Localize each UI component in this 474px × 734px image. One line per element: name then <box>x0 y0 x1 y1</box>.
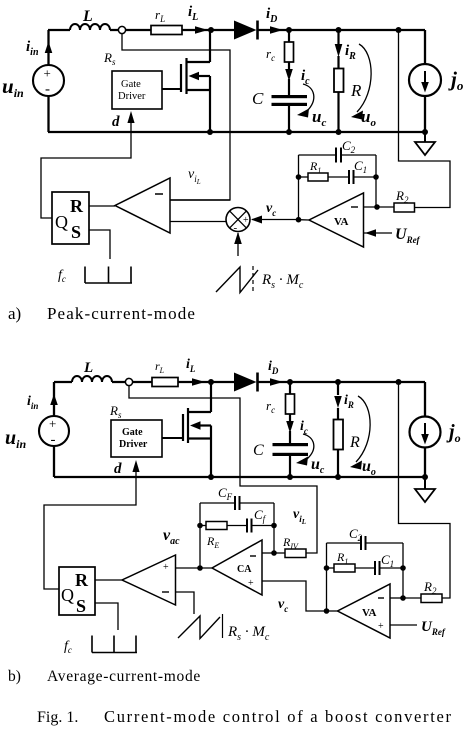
wire VA output v_c node a <box>299 219 310 221</box>
arc u_o a <box>357 44 371 112</box>
svg-text:L: L <box>82 8 93 25</box>
wire v_c into summer a <box>252 219 299 221</box>
svg-text:S: S <box>76 596 86 616</box>
capacitor C a <box>272 95 308 98</box>
svg-text:rL: rL <box>155 7 165 24</box>
resistor R branch a <box>337 30 339 132</box>
svg-text:Current-mode control of a boos: Current-mode control of a boost converte… <box>104 707 453 726</box>
svg-text:CF: CF <box>218 485 233 502</box>
wire left leg a <box>47 30 49 132</box>
svg-text:Gate: Gate <box>122 427 143 438</box>
resistor R_IV b <box>285 549 306 558</box>
wire bottom rail b <box>54 476 425 478</box>
svg-text:URef: URef <box>395 226 421 245</box>
capacitor C_F b <box>200 502 274 504</box>
resistor r_L b <box>152 378 178 387</box>
arrow i_in b <box>50 394 58 405</box>
svg-text:uc: uc <box>311 456 325 476</box>
svg-text:b): b) <box>8 668 21 685</box>
node junction drain a <box>208 27 214 33</box>
svg-text:fc: fc <box>64 639 72 655</box>
node sense tap b (open circle) <box>125 378 132 385</box>
svg-text:jo: jo <box>448 67 464 93</box>
op-amp CA b <box>212 540 262 595</box>
svg-text:vc: vc <box>266 201 276 218</box>
wire output feedback to R2 b <box>399 382 451 598</box>
svg-text:iin: iin <box>27 394 38 411</box>
arrow i_c branch b <box>289 414 291 422</box>
capacitor branch a : resistor r_c <box>288 30 290 42</box>
wire ramp into summer a <box>237 233 239 256</box>
capacitor C2 b <box>327 542 404 544</box>
svg-text:CA: CA <box>237 564 252 575</box>
svg-text:RIV: RIV <box>282 535 299 551</box>
arrow i_D b <box>270 378 283 386</box>
ground b <box>424 477 426 489</box>
svg-text:uin: uin <box>5 427 26 451</box>
wire latch Q output to d b <box>44 464 136 589</box>
svg-text:Rs: Rs <box>103 50 116 67</box>
svg-text:Q: Q <box>61 585 74 605</box>
latch SR a <box>52 192 89 244</box>
wire VA inverting input b <box>390 597 403 599</box>
svg-text:Average-current-mode: Average-current-mode <box>47 668 201 685</box>
wire CA output v_ac to comparator b <box>176 567 213 569</box>
wire bottom rail a <box>48 131 425 133</box>
clock f_c a <box>85 267 132 284</box>
svg-text:d: d <box>112 114 120 130</box>
svg-text:+: + <box>49 416 56 431</box>
op-amp VA a <box>309 193 364 247</box>
node junction source a <box>207 129 213 135</box>
resistor R2 b <box>403 597 421 599</box>
svg-text:+: + <box>248 578 254 589</box>
capacitor C1 a <box>328 176 376 178</box>
comparator a <box>115 178 170 233</box>
current source j_o a <box>409 64 441 96</box>
svg-text:R: R <box>349 434 360 451</box>
inductor L b <box>72 376 112 382</box>
wire latch R input b <box>95 579 122 581</box>
node junction drain b <box>208 379 214 385</box>
source u_in b <box>39 416 69 446</box>
svg-text:a): a) <box>8 304 21 323</box>
svg-text:RE: RE <box>206 534 219 550</box>
wire VA inverting input a <box>364 206 395 208</box>
arc u_o b <box>356 396 370 462</box>
wire top rail b <box>54 381 425 383</box>
wire CA inverting input b <box>262 552 274 554</box>
svg-text:iD: iD <box>268 359 279 376</box>
svg-text:Peak-current-mode: Peak-current-mode <box>47 304 196 323</box>
svg-text:C: C <box>253 442 264 459</box>
arc u_c a <box>303 84 314 111</box>
resistor R branch b <box>337 382 339 477</box>
resistor R1 a <box>296 174 302 180</box>
wire comparator plus input / summer output a <box>170 221 226 223</box>
diode D b <box>234 373 257 392</box>
svg-text:uo: uo <box>361 107 376 129</box>
svg-text:viL: viL <box>293 507 306 526</box>
svg-text:rc: rc <box>266 398 275 415</box>
transistor Q2 mosfet b <box>183 382 211 477</box>
svg-text:iin: iin <box>26 39 39 58</box>
node junctions R b <box>335 379 341 385</box>
node junction jo a <box>422 129 428 135</box>
arrow i_L a <box>195 26 208 34</box>
svg-text:C1: C1 <box>354 158 367 175</box>
capacitor C b <box>273 443 309 446</box>
svg-text:S: S <box>71 222 81 242</box>
wire jo branch a <box>424 30 426 132</box>
wire left leg b <box>53 382 55 477</box>
svg-text:jo: jo <box>446 421 461 445</box>
wire VA feedback right vertical b <box>402 543 404 598</box>
wire latch S input a <box>89 230 110 259</box>
wire CA plus input v_c path b <box>262 581 327 611</box>
svg-text:d: d <box>114 461 122 477</box>
wire VA feedback left vertical b <box>326 543 328 611</box>
svg-text:R: R <box>350 81 362 100</box>
svg-text:R2: R2 <box>395 188 409 205</box>
svg-text:R: R <box>75 570 89 590</box>
resistor R_E b <box>197 523 203 529</box>
svg-text:uo: uo <box>362 458 376 478</box>
svg-text:fc: fc <box>58 268 66 284</box>
svg-text:-: - <box>234 222 238 234</box>
arrow d into driver b <box>132 460 139 472</box>
capacitor C1 b <box>355 567 403 569</box>
svg-text:vc: vc <box>278 597 288 614</box>
svg-text:Driver: Driver <box>119 439 148 450</box>
svg-text:VA: VA <box>334 216 349 228</box>
svg-text:Cf: Cf <box>254 507 267 524</box>
svg-text:R1: R1 <box>309 159 321 175</box>
svg-text:-: - <box>45 82 50 98</box>
resistor R2 a <box>394 203 415 212</box>
svg-text:iD: iD <box>266 6 277 25</box>
wire comparator minus input to ramp b <box>176 592 195 614</box>
svg-text:L: L <box>83 360 93 376</box>
svg-text:R1: R1 <box>336 550 348 566</box>
sawtooth ramp a <box>216 267 258 293</box>
svg-text:R2: R2 <box>423 579 437 596</box>
svg-text:C1: C1 <box>381 552 394 569</box>
sawtooth ramp b <box>178 616 220 639</box>
svg-text:viL: viL <box>188 167 201 186</box>
node sense tap a (open circle) <box>118 26 125 33</box>
arrow i_in a <box>45 42 53 54</box>
svg-text:Fig. 1.: Fig. 1. <box>37 709 78 726</box>
svg-text:Rs: Rs <box>109 403 122 420</box>
wire sense line v_iL a <box>122 34 230 200</box>
svg-text:Rs · Mc: Rs · Mc <box>227 624 270 643</box>
svg-text:iL: iL <box>188 4 198 23</box>
svg-text:C: C <box>252 89 264 108</box>
svg-text:Driver: Driver <box>118 91 146 102</box>
node junction jo b <box>422 474 428 480</box>
arrow d into driver a <box>127 111 134 123</box>
svg-text:Gate: Gate <box>121 79 141 90</box>
op-amp VA b <box>338 584 391 638</box>
svg-text:Rs · Mc: Rs · Mc <box>261 272 304 291</box>
arrow i_D a <box>270 26 283 34</box>
capacitor C2 a <box>299 154 377 156</box>
svg-text:iR: iR <box>344 393 354 410</box>
svg-text:R: R <box>70 196 84 216</box>
latch SR b <box>59 567 95 615</box>
ground a <box>424 132 426 142</box>
capacitor C_f b <box>227 525 274 527</box>
inductor L a <box>70 24 110 30</box>
svg-text:uc: uc <box>312 107 326 129</box>
resistor R1 b <box>324 565 330 571</box>
wire VA noninverting input / U_Ref a <box>364 232 393 234</box>
gate driver box a <box>112 71 162 109</box>
svg-text:-: - <box>51 432 56 448</box>
wire sense line v_iL b <box>129 386 317 553</box>
svg-text:URef: URef <box>421 619 446 637</box>
node junction source b <box>208 474 214 480</box>
svg-text:C2: C2 <box>342 138 356 155</box>
wire output feedback to R2 a <box>399 30 451 208</box>
svg-text:VA: VA <box>362 607 377 619</box>
wire latch R input a <box>89 205 115 207</box>
wire latch Q output to d a <box>41 115 131 218</box>
summer a <box>226 208 250 232</box>
wire VA output node b <box>324 608 330 614</box>
node junctions cap a <box>286 27 292 33</box>
svg-text:uin: uin <box>2 74 24 100</box>
svg-text:C2: C2 <box>349 526 363 543</box>
source u_in a <box>33 65 64 96</box>
svg-text:rc: rc <box>266 46 275 63</box>
svg-text:+: + <box>378 621 384 632</box>
diode D a <box>234 21 257 40</box>
wire VA feedback right vertical a <box>375 155 377 207</box>
wire VA feedback left vertical a <box>298 155 300 220</box>
svg-text:+: + <box>163 562 169 573</box>
svg-text:rL: rL <box>155 359 165 375</box>
resistor r_L a <box>151 26 182 35</box>
current source j_o b <box>410 417 441 448</box>
svg-text:+: + <box>243 215 249 226</box>
clock f_c b <box>92 636 137 653</box>
node junctions cap b <box>287 379 293 385</box>
node junctions R a <box>336 27 342 33</box>
wire gate lead b <box>162 437 183 439</box>
svg-text:vac: vac <box>163 527 180 547</box>
wire top rail a <box>48 29 425 31</box>
gate driver box b <box>111 420 162 457</box>
svg-text:Q: Q <box>55 212 68 232</box>
svg-text:ic: ic <box>300 419 308 436</box>
wire CA feedback left vertical b <box>199 503 201 568</box>
capacitor branch b : resistor r_c <box>289 382 291 394</box>
wire jo branch b <box>424 382 426 477</box>
svg-text:+: + <box>44 66 51 81</box>
wire latch S input b <box>95 603 118 630</box>
wire R_IV to inverting node b <box>274 552 285 554</box>
wire gate lead a <box>162 88 181 90</box>
transistor Q1 mosfet a <box>181 30 210 132</box>
arrow i_c branch a <box>288 62 290 70</box>
arrow i_L b <box>192 378 205 386</box>
comparator b <box>122 555 176 605</box>
svg-text:iL: iL <box>186 357 196 374</box>
wire comparator minus input a <box>170 199 230 201</box>
wire CA feedback right vertical b <box>273 503 275 553</box>
wire VA noninverting input U_Ref b <box>390 624 417 626</box>
arc u_c b <box>303 434 314 459</box>
svg-text:iR: iR <box>345 43 356 62</box>
